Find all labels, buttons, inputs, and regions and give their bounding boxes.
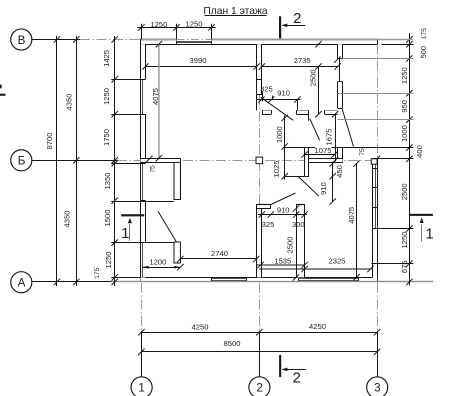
tick at wall B ext junction — [334, 57, 340, 63]
title underline — [205, 15, 267, 17]
svg-text:4350: 4350 — [62, 211, 71, 228]
svg-text:675: 675 — [400, 260, 409, 273]
axis circle Б — [11, 150, 32, 171]
svg-text:910: 910 — [319, 182, 328, 195]
left extension lines — [111, 80, 174, 278]
axis line 3 — [377, 44, 379, 377]
svg-text:Б: Б — [18, 155, 26, 168]
interior dim 4075 left — [156, 41, 162, 161]
svg-text:1535: 1535 — [274, 256, 291, 265]
dim chain line 4350x2 — [73, 36, 79, 286]
axis line А — [32, 281, 434, 283]
dim chain line left inner — [112, 36, 118, 286]
svg-text:3990: 3990 — [190, 56, 207, 65]
door wall in bottom-left room pier 2 — [174, 242, 180, 263]
svg-text:1500: 1500 — [103, 210, 112, 227]
svg-text:План 1 этажа: План 1 этажа — [203, 6, 268, 17]
axis circle В — [11, 29, 32, 50]
window W-top in top wall — [177, 41, 212, 45]
right exterior wall — [373, 39, 381, 282]
interior dim 325+910 top — [257, 92, 301, 111]
svg-text:В: В — [18, 34, 26, 47]
window W-R right wall — [373, 159, 378, 229]
interior dim 2735 — [259, 63, 341, 69]
Б wall middle segment — [305, 158, 343, 163]
section mark 1 left — [121, 214, 144, 241]
svg-text:1750: 1750 — [102, 129, 111, 146]
svg-text:4075: 4075 — [347, 207, 356, 224]
axis line Б — [32, 160, 373, 162]
divider wall bottom rooms — [296, 204, 304, 277]
svg-text:4350: 4350 — [64, 94, 73, 111]
window W-L2 left wall — [142, 163, 144, 201]
svg-text:1250: 1250 — [102, 88, 111, 105]
door swing bottom-left room — [158, 211, 176, 242]
svg-text:910: 910 — [277, 206, 290, 215]
hall band wall right segment — [325, 110, 338, 114]
window W-L1 left wall — [142, 79, 144, 114]
section mark 2 top — [279, 16, 305, 38]
svg-text:2: 2 — [256, 382, 262, 395]
interior dim 2500 bottom room — [293, 205, 299, 280]
svg-text:325: 325 — [262, 220, 275, 229]
wall segment at axis Б west — [141, 156, 181, 200]
hall band wall pier (325) — [262, 110, 272, 114]
door swing hall band — [310, 119, 320, 141]
wall B connector line — [339, 59, 341, 82]
bottom dim chain 8500 — [138, 349, 380, 355]
svg-text:1675: 1675 — [325, 129, 334, 146]
svg-text:175: 175 — [421, 28, 428, 40]
window W-B1 bottom wall — [211, 277, 246, 281]
svg-text:75: 75 — [359, 148, 366, 156]
svg-text:4250: 4250 — [309, 322, 326, 331]
svg-text:175: 175 — [94, 267, 101, 279]
right extension lines — [285, 40, 414, 264]
interior dim 1075 — [301, 151, 337, 157]
axis line В — [32, 39, 141, 41]
svg-text:1000: 1000 — [400, 125, 409, 142]
svg-text:2740: 2740 — [211, 249, 228, 258]
svg-text:1250: 1250 — [150, 20, 167, 29]
svg-text:2500: 2500 — [308, 69, 317, 86]
pantry door swing — [298, 176, 319, 196]
pantry stub wall — [305, 148, 309, 177]
svg-text:75: 75 — [150, 165, 157, 173]
interior dim 1200 — [143, 264, 184, 270]
svg-text:1250: 1250 — [104, 252, 113, 269]
axis circle А — [11, 272, 32, 293]
svg-text:1: 1 — [138, 382, 144, 395]
svg-text:950: 950 — [400, 100, 409, 113]
svg-text:300: 300 — [292, 220, 305, 229]
left exterior wall — [141, 39, 146, 282]
svg-text:2735: 2735 — [294, 56, 311, 65]
right wall pier at Б — [371, 159, 377, 164]
lower band wall left pier — [257, 204, 271, 209]
section mark 2 bottom — [279, 355, 306, 377]
door swing wall B — [342, 108, 354, 146]
svg-text:4250: 4250 — [192, 323, 209, 332]
window W-B2 bottom wall — [299, 277, 360, 281]
interior dim 2500 top-right — [315, 41, 321, 117]
section mark 1 right — [409, 214, 433, 242]
interior dim 1535+2325 — [257, 262, 374, 272]
bottom dim chain 4250 — [138, 329, 380, 335]
interior dim 2740 — [177, 256, 259, 262]
svg-text:1075: 1075 — [315, 146, 332, 155]
svg-text:1: 1 — [121, 225, 129, 242]
door swing lower band — [271, 193, 296, 205]
svg-text:2325: 2325 — [329, 257, 346, 266]
svg-text:2500: 2500 — [286, 237, 295, 254]
interior wall B pier 3 — [338, 147, 343, 162]
svg-text:1250: 1250 — [186, 20, 203, 29]
svg-text:2: 2 — [293, 10, 301, 27]
svg-text:1250: 1250 — [400, 232, 409, 249]
axis circle 2 — [249, 377, 270, 396]
svg-text:2: 2 — [293, 369, 301, 386]
svg-text:1350: 1350 — [103, 173, 112, 190]
svg-text:8500: 8500 — [224, 339, 241, 348]
bottom exterior wall — [141, 277, 378, 282]
svg-text:500: 500 — [419, 46, 428, 59]
top exterior wall — [140, 39, 377, 44]
svg-text:А: А — [18, 277, 26, 290]
interior wall B pier 2 — [338, 82, 343, 109]
svg-text:325: 325 — [260, 85, 273, 94]
svg-text:450: 450 — [335, 165, 344, 178]
axis circle 3 — [367, 377, 388, 396]
column at axis 2 x Б — [256, 157, 263, 164]
dim chain line 8700 — [54, 36, 60, 286]
top dim chain — [137, 24, 215, 40]
axis line 2 — [259, 95, 261, 377]
svg-text:3: 3 — [374, 382, 380, 395]
interior wall A lower (on axis 2) — [257, 204, 262, 277]
svg-text:1200: 1200 — [149, 257, 166, 266]
window W-L3 left wall — [142, 243, 144, 278]
door wall in bottom-left room pier 1 — [174, 162, 180, 199]
interior dim 1675 — [332, 111, 338, 164]
right dim chain line — [406, 33, 412, 286]
svg-text:8700: 8700 — [45, 133, 54, 150]
svg-text:910: 910 — [277, 89, 290, 98]
svg-text:2500: 2500 — [400, 183, 409, 200]
hall band wall middle segment — [297, 110, 309, 121]
svg-text:1: 1 — [425, 225, 433, 242]
interior dim 910+325+300 lower — [258, 211, 308, 217]
А axis gray continuation over bottom wall — [111, 281, 433, 283]
interior wall B upper pier 1 — [338, 44, 343, 58]
svg-text:1000: 1000 — [275, 126, 284, 143]
svg-text:400: 400 — [415, 145, 424, 158]
interior dim 3990 — [142, 63, 260, 69]
interior dim 4075 right — [353, 160, 359, 280]
svg-text:1250: 1250 — [400, 67, 409, 84]
section mark cut off at left edge — [0, 85, 6, 96]
interior wall A upper (on axis 2) — [257, 44, 262, 94]
interior dim 450+910 vertical — [330, 160, 336, 205]
door swing wall A — [261, 97, 293, 120]
svg-text:1425: 1425 — [102, 50, 111, 67]
axis line 1 — [141, 283, 143, 377]
svg-text:1025: 1025 — [272, 161, 281, 178]
svg-text:4075: 4075 — [151, 88, 160, 105]
axis circle 1 — [131, 377, 152, 396]
interior dim 1000/1025 — [282, 115, 305, 180]
